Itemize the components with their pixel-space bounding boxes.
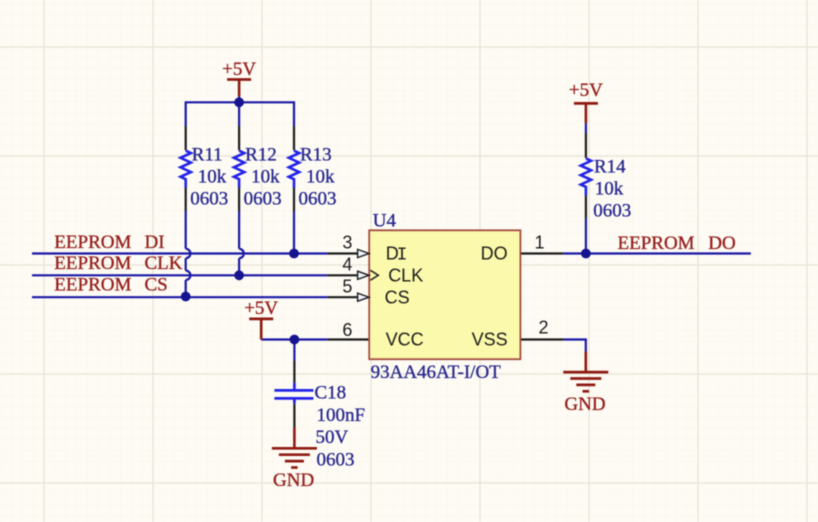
svg-text:6: 6 bbox=[342, 320, 352, 340]
svg-text:10k: 10k bbox=[251, 167, 280, 188]
svg-text:10k: 10k bbox=[595, 179, 624, 200]
svg-text:EEPROM: EEPROM bbox=[54, 253, 131, 274]
svg-text:R13: R13 bbox=[300, 145, 332, 166]
svg-text:GND: GND bbox=[564, 394, 605, 415]
svg-text:R11: R11 bbox=[192, 145, 223, 166]
svg-text:GND: GND bbox=[273, 470, 314, 491]
svg-text:+5V: +5V bbox=[244, 298, 278, 319]
svg-text:CS: CS bbox=[145, 275, 168, 296]
svg-text:EEPROM: EEPROM bbox=[54, 232, 131, 253]
svg-text:DO: DO bbox=[481, 244, 508, 264]
svg-text:4: 4 bbox=[342, 255, 352, 275]
svg-text:93AA46AT-I/OT: 93AA46AT-I/OT bbox=[371, 362, 502, 383]
svg-text:DI: DI bbox=[386, 244, 408, 266]
svg-text:VSS: VSS bbox=[472, 330, 508, 350]
svg-text:10k: 10k bbox=[306, 167, 335, 188]
svg-text:EEPROM: EEPROM bbox=[54, 275, 131, 296]
svg-text:1: 1 bbox=[534, 233, 544, 253]
svg-text:DI: DI bbox=[145, 232, 165, 253]
svg-text:0603: 0603 bbox=[299, 189, 337, 210]
svg-text:C18: C18 bbox=[315, 382, 347, 403]
svg-text:EEPROM: EEPROM bbox=[618, 233, 695, 254]
svg-text:0603: 0603 bbox=[190, 189, 228, 210]
svg-text:3: 3 bbox=[342, 233, 352, 253]
svg-text:100nF: 100nF bbox=[317, 405, 366, 426]
svg-text:CS: CS bbox=[385, 287, 410, 307]
svg-text:R14: R14 bbox=[594, 157, 626, 178]
svg-text:CLK: CLK bbox=[388, 265, 423, 285]
svg-text:0603: 0603 bbox=[244, 189, 282, 210]
svg-text:DO: DO bbox=[708, 233, 735, 254]
svg-text:U4: U4 bbox=[373, 210, 397, 231]
svg-text:0603: 0603 bbox=[317, 449, 355, 470]
svg-text:CLK: CLK bbox=[145, 253, 183, 274]
svg-text:10k: 10k bbox=[198, 167, 227, 188]
svg-text:VCC: VCC bbox=[386, 330, 424, 350]
svg-text:0603: 0603 bbox=[593, 201, 631, 222]
svg-text:R12: R12 bbox=[245, 145, 277, 166]
svg-text:+5V: +5V bbox=[222, 59, 256, 80]
svg-text:50V: 50V bbox=[316, 427, 349, 448]
svg-text:+5V: +5V bbox=[569, 80, 603, 101]
svg-text:2: 2 bbox=[538, 318, 548, 338]
svg-text:5: 5 bbox=[342, 276, 352, 296]
